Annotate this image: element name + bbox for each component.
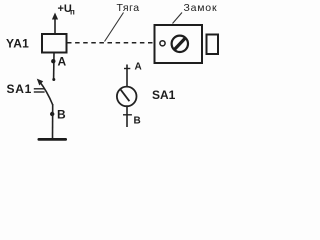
label A bbox=[58, 55, 67, 69]
svg-text:В: В bbox=[134, 116, 141, 127]
mechanical link (dashed wire) bbox=[67, 42, 160, 44]
label B bbox=[57, 108, 66, 122]
svg-text:YA1: YA1 bbox=[6, 37, 29, 51]
lock bolt bbox=[207, 35, 219, 55]
svg-text:А: А bbox=[58, 55, 67, 69]
svg-text:В: В bbox=[57, 108, 66, 122]
net +Un label bbox=[58, 3, 76, 17]
label Тяга bbox=[117, 2, 140, 14]
lock body (Замок) bbox=[155, 25, 203, 63]
terminal label A bbox=[135, 62, 142, 73]
terminal B wire bbox=[123, 106, 132, 127]
label YA1 bbox=[6, 37, 29, 51]
wire switch to ground bbox=[52, 104, 54, 139]
svg-text:А: А bbox=[135, 62, 142, 73]
terminal A wire bbox=[124, 65, 130, 87]
svg-text:п: п bbox=[70, 8, 75, 17]
node B bbox=[50, 112, 54, 116]
svg-text:SA1: SA1 bbox=[7, 82, 32, 96]
label SA1 (switch) bbox=[7, 82, 32, 96]
link pin node bbox=[160, 41, 165, 46]
svg-text:Замок: Замок bbox=[184, 2, 218, 14]
lock cylinder bbox=[172, 36, 188, 52]
node A bbox=[51, 59, 55, 63]
key switch SA1 front view bbox=[117, 87, 137, 107]
label Замок bbox=[184, 2, 218, 14]
power arrow to +Un bbox=[52, 13, 58, 34]
ground bbox=[38, 138, 68, 141]
leader line Тяга bbox=[105, 13, 124, 42]
label SA1 (key view) bbox=[152, 88, 176, 102]
switch SA1 (contact) bbox=[34, 78, 56, 105]
solenoid coil YA1 bbox=[42, 34, 67, 53]
leader line Замок bbox=[173, 13, 183, 24]
terminal label B bbox=[134, 116, 141, 127]
wire YA1 bottom to switch bbox=[53, 53, 55, 80]
svg-text:SA1: SA1 bbox=[152, 88, 176, 102]
svg-text:Тяга: Тяга bbox=[117, 2, 140, 14]
